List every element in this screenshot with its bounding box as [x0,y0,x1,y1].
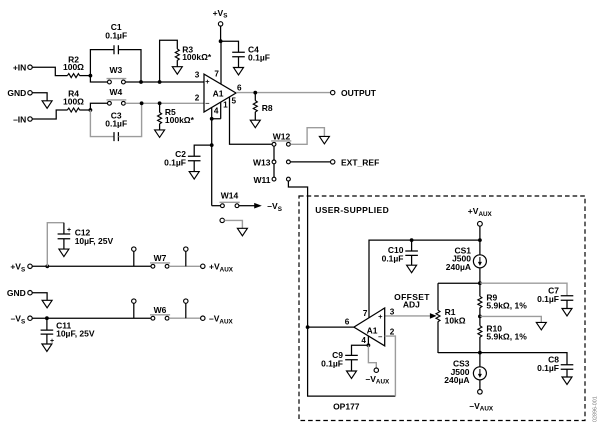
svg-text:W14: W14 [221,191,239,201]
terminal +VAUX [201,262,234,274]
wire output (pin 6) [236,92,331,94]
resistor R3 [160,40,212,82]
wire W3 to A1 pin3 [125,81,204,83]
svg-text:GND: GND [7,88,26,98]
terminal GND (lower) [7,288,32,298]
ground of R3 [172,67,182,75]
terminal EXT_REF [331,158,380,168]
ground of spare terminal [237,228,247,236]
terminal OUTPUT [331,88,377,98]
node C10 [410,238,414,242]
svg-text:3: 3 [195,71,200,80]
svg-text:+: + [378,312,383,321]
svg-text:ADJ: ADJ [403,300,420,310]
svg-text:10kΩ: 10kΩ [445,315,466,325]
wire node D up to W4 row [90,103,107,110]
svg-text:0.1µF: 0.1µF [105,119,127,129]
svg-text:W3: W3 [110,65,123,75]
capacitor C11 [41,318,95,345]
svg-text:100kΩ*: 100kΩ* [165,115,195,125]
current source CS1 [446,240,487,283]
ground of C2 [189,172,199,180]
svg-text:10µF, 25V: 10µF, 25V [75,236,114,246]
jumper W4 [107,87,127,105]
node C2 junction [210,143,214,147]
potentiometer R1 [436,283,466,353]
ground of GND input [42,101,52,109]
wire pin4 node down [211,119,213,206]
svg-text:7: 7 [214,70,219,79]
capacitor C4 [221,41,270,67]
wire midpoint to ground [480,316,541,322]
node B (C1/W3 junction) [139,80,143,84]
terminal +IN [13,63,32,73]
label OFFSET ADJ [394,292,430,310]
ground of R5 [155,130,165,138]
terminal +VAUX (box) [468,206,493,240]
svg-text:OP177: OP177 [333,401,360,411]
test point stub left of W6 [132,299,136,318]
wire +Vs rail to W7 [32,265,151,267]
terminal GND (input) [7,88,32,98]
node +Vs/C12 [45,264,49,268]
dashed box USER-SUPPLIED [299,196,585,421]
svg-text:W13: W13 [253,158,271,168]
ground of C4 [234,68,244,76]
svg-text:A1: A1 [213,88,224,98]
wire GND lower to ground [32,293,47,301]
ground of R8 [250,120,260,128]
node pin4 junction [210,117,214,121]
wire node A down to W3 row [90,76,107,82]
svg-text:100kΩ*: 100kΩ* [182,52,212,62]
wire pin 4 [367,336,369,345]
svg-text:+: + [67,227,71,234]
svg-text:1: 1 [223,100,228,109]
resistor R4 [63,89,84,112]
svg-text:W11: W11 [253,175,270,185]
svg-text:0.1µF: 0.1µF [321,358,343,368]
wire W7 to +VAUX [169,265,201,267]
wire pin 5 to W12 [230,97,273,144]
svg-text:100Ω: 100Ω [63,96,84,106]
wire node F to A1 pin2 [160,102,204,104]
svg-text:W12: W12 [273,132,291,142]
svg-text:W4: W4 [110,87,123,97]
node -Vs/C11 [45,316,49,320]
resistor R9 [478,283,527,316]
op-amp A1 (main) [204,74,236,112]
wire pin 2 stub [385,336,396,396]
node +Vs junction [219,39,223,43]
node D [89,108,93,112]
svg-text:3: 3 [390,308,395,317]
svg-text:+IN: +IN [13,63,26,73]
resistor R5 [158,103,195,130]
terminal -Vs (lower) [11,314,33,326]
wire W13 to EXT_REF [290,161,330,163]
node bottom rail CS3 [478,351,482,355]
svg-text:R8: R8 [262,103,273,113]
terminal +Vs (lower) [10,262,32,274]
ground of midpoint [536,322,546,330]
svg-text:GND: GND [7,288,26,298]
node output/R8 [253,91,257,95]
svg-text:240µA: 240µA [444,375,469,385]
terminal -VAUX (box bottom) [469,390,494,413]
jumper W12 [271,132,291,147]
ground of C8 [562,377,572,385]
jumper W14 [212,191,240,208]
svg-text:A1: A1 [367,325,378,335]
node feedback [306,325,310,329]
terminal -VAUX [201,314,234,326]
wire W11 into user box [288,181,307,327]
capacitor C10 [382,240,418,265]
resistor R8 [253,93,273,121]
svg-text:0.1µF: 0.1µF [537,363,559,373]
ground of C11 [42,344,52,352]
wire GND to ground [32,93,47,101]
svg-text:W7: W7 [154,253,167,263]
ground of C7 [562,309,572,317]
node E (C3/W4 junction) [140,101,144,105]
wire top rail to R1 [438,282,480,284]
node pin 4 [367,343,371,347]
node C (R3 junction) [158,80,162,84]
svg-text:EXT_REF: EXT_REF [341,158,379,168]
capacitor C9 [321,345,368,371]
ground of W12 jog [319,136,329,144]
test point stub right of W7 [184,247,188,266]
svg-text:0.1µF: 0.1µF [537,294,559,304]
node F (R5 junction) [158,101,162,105]
svg-text:100Ω: 100Ω [63,62,84,72]
svg-text:5: 5 [232,97,237,106]
wire W6 to -VAUX [169,317,201,319]
wire +IN to R2 [32,67,67,75]
svg-text:2: 2 [390,328,395,337]
svg-text:240µA: 240µA [446,262,471,272]
svg-text:5.9kΩ, 1%: 5.9kΩ, 1% [486,301,527,311]
jumper W13 [253,158,290,168]
ground of C9 [347,371,357,379]
resistor R2 [63,54,84,77]
test point stub right of W6 [184,299,188,318]
ground of C10 [407,265,417,273]
capacitor C3 [90,103,141,141]
svg-text:6: 6 [345,317,350,326]
wire R4 to node D [80,109,91,111]
wiper arrow of R1 (pin 3 wire) [385,313,437,319]
op-amp A1 (OP177) [354,308,385,346]
svg-text:5.9kΩ, 1%: 5.9kΩ, 1% [486,331,527,341]
jumper W7 [150,253,170,268]
svg-text:4: 4 [361,336,366,345]
terminal +Vs [213,8,228,41]
capacitor C8 [537,355,573,377]
node CS1 bottom rail [478,281,482,285]
svg-text:2: 2 [195,93,200,102]
capacitor C12 [47,223,113,267]
wire R2 to node A [80,75,91,77]
wire -Vs rail to W6 [32,317,151,319]
svg-text:6: 6 [237,84,242,93]
node R9/R10 midpoint [478,315,482,319]
capacitor C1 [90,22,141,82]
svg-text:USER-SUPPLIED: USER-SUPPLIED [315,205,389,215]
jumper W3 [107,65,127,84]
wire pin 6 to feedback node [308,326,354,328]
svg-text:0.1µF: 0.1µF [248,53,270,63]
svg-text:10µF, 25V: 10µF, 25V [56,329,95,339]
ground of C12 [59,249,69,257]
wire pins 4 and 1 tie [212,102,221,119]
wire C10 rail to pin 7 (OP177) [369,240,480,318]
svg-text:–: – [205,98,209,107]
terminal -IN [13,114,32,124]
svg-text:–: – [378,332,382,341]
svg-text:0.1µF: 0.1µF [164,157,186,167]
wire pin 7 to +Vs node [220,41,222,84]
wire W12-W13-W11 left column [273,146,275,177]
wire W14 arrow to -Vs [239,201,282,213]
capacitor C7 [537,286,573,309]
jumper W6 [150,305,170,320]
svg-text:02896-001: 02896-001 [592,396,598,422]
wire top rail to C7 [480,283,567,296]
wire bottom rail R1 to C8 [438,353,567,365]
wire -IN to R4 [32,110,67,119]
capacitor C2 [164,145,212,172]
svg-text:OUTPUT: OUTPUT [341,88,377,98]
svg-text:7: 7 [363,309,368,318]
ground of GND lower [42,300,52,308]
wire feedback loop to pin 2 [308,327,396,396]
node +VAUX/C10 rail [478,238,482,242]
svg-text:+: + [205,77,210,86]
test point stub left of W7 [132,247,136,266]
spare jumper terminal below W14 [220,218,242,228]
svg-text:4: 4 [214,107,219,116]
stub pin4 to -VAUX terminal [366,345,391,385]
svg-text:W6: W6 [154,305,167,315]
svg-text:0.1µF: 0.1µF [105,31,127,41]
current source CS3 [444,353,486,390]
jumper W11 [253,175,290,185]
resistor R10 [478,316,527,352]
wire W12 jog to ground [290,128,324,145]
wire W4 to node E [125,102,159,104]
svg-text:0.1µF: 0.1µF [382,253,404,263]
svg-text:–IN: –IN [13,114,26,124]
node A [89,74,93,78]
